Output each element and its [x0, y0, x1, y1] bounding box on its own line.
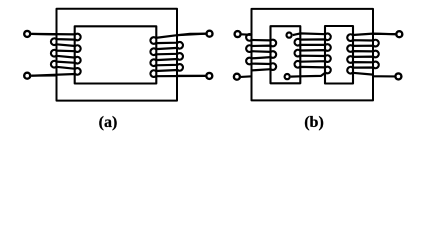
terminal left-bottom (a)	[24, 73, 30, 79]
terminal L1 (b)	[235, 31, 241, 37]
right winding (b)	[347, 34, 395, 75]
terminal T1 inside window 1 (b)	[287, 33, 292, 38]
wire left-bottom (a)	[31, 74, 57, 76]
secondary winding (a)	[150, 34, 205, 77]
wire left-top (a)	[31, 33, 57, 36]
wire R2 (b)	[373, 75, 395, 77]
centre winding (b)	[291, 33, 331, 76]
terminal left-top (a)	[24, 31, 30, 37]
terminal right-top (a)	[207, 31, 213, 37]
label (b)	[294, 114, 334, 132]
terminal right-bottom (a)	[206, 73, 212, 79]
left winding (b)	[242, 34, 277, 70]
terminal R1 (b)	[396, 31, 402, 37]
wire right-bottom (a)	[177, 75, 205, 77]
transformer core outer rectangle (a)	[57, 9, 178, 101]
wire R1 (b)	[373, 33, 395, 36]
terminal T2 inside window 1 (b)	[285, 74, 290, 79]
core window 1 (b) inner rectangle	[271, 26, 301, 83]
wire L2 (b)	[241, 75, 252, 78]
transformer core outer rectangle (b)	[252, 9, 374, 101]
core window 2 (b) inner rectangle	[325, 26, 353, 84]
terminal R2 (b)	[395, 73, 401, 79]
terminal L2 (b)	[234, 74, 240, 80]
label (a)	[88, 114, 128, 132]
wire right-top (a)	[177, 34, 206, 36]
primary winding (a)	[31, 34, 81, 76]
transformer core window (a) inner rectangle	[75, 26, 157, 83]
